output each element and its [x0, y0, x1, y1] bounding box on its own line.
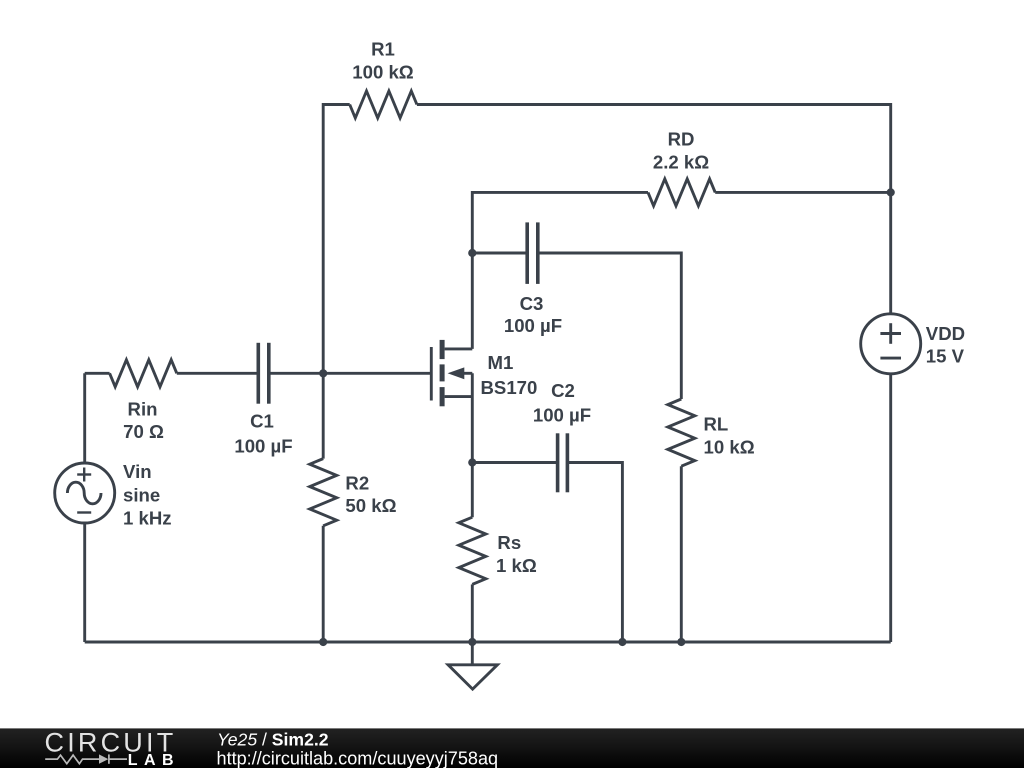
svg-text:Ye25 / Sim2.2: Ye25 / Sim2.2	[217, 730, 329, 750]
junction: source/C2 node	[468, 458, 476, 466]
channel bar bottom (source)	[440, 387, 445, 406]
wire: node A down to R2 top	[322, 373, 325, 458]
VDD minus sign	[880, 357, 901, 360]
wire: C2 right plate over and down to bottom rail	[567, 463, 622, 643]
svg-text:50 kΩ: 50 kΩ	[345, 495, 396, 516]
svg-text:R1: R1	[371, 39, 395, 60]
svg-text:1 kΩ: 1 kΩ	[496, 555, 537, 576]
wire: RD right to right rail	[715, 191, 891, 194]
svg-text:C1: C1	[250, 411, 274, 432]
junction: C2/bottom rail	[618, 638, 626, 646]
svg-text:Rs: Rs	[497, 532, 521, 553]
wire: source vertical from arrow down to Rs top	[471, 373, 474, 517]
resistor Rs	[459, 517, 486, 584]
source lead	[445, 395, 473, 398]
resistor Rin	[110, 360, 177, 387]
svg-text:70 Ω: 70 Ω	[123, 421, 164, 442]
wire: bottom rail	[85, 641, 891, 644]
junction: node A (C1/R1/R2/gate)	[319, 369, 327, 377]
Vin circle	[55, 463, 115, 523]
resistor RL	[668, 399, 695, 466]
junction: R2/bottom rail	[319, 638, 327, 646]
svg-text:Rin: Rin	[128, 399, 158, 420]
channel bar top (drain)	[440, 340, 445, 359]
wire: C1 right plate to node A	[269, 372, 323, 375]
svg-text:Vin: Vin	[123, 461, 152, 482]
svg-text:10 kΩ: 10 kΩ	[704, 436, 755, 457]
svg-text:R2: R2	[345, 473, 369, 494]
svg-text:100 µF: 100 µF	[234, 436, 292, 457]
svg-text:15 V: 15 V	[926, 346, 965, 367]
wire: R2 bottom to bottom rail	[322, 526, 325, 642]
svg-text:http://circuitlab.com/cuuyeyyj: http://circuitlab.com/cuuyeyyj758aq	[217, 749, 499, 768]
svg-text:BS170: BS170	[481, 377, 538, 398]
body arrow head	[448, 367, 465, 379]
svg-text:1 kHz: 1 kHz	[123, 507, 172, 528]
wire: R1 right to top-right corner	[417, 105, 891, 314]
Vin plus sign	[77, 473, 91, 475]
voltage source VDD	[861, 314, 921, 642]
voltage source Vin (sine)	[55, 373, 115, 642]
transistor M1 (BS170 NMOS)	[431, 340, 472, 406]
svg-text:VDD: VDD	[926, 323, 965, 344]
svg-text:100 kΩ: 100 kΩ	[352, 62, 414, 83]
wire: left rail down to Vin top	[83, 373, 86, 463]
wire: Vin bottom to bottom rail	[83, 523, 86, 642]
wire: drain node to C3 left plate	[472, 252, 527, 255]
wire: node A up to R1 left lead	[323, 105, 350, 374]
svg-text:LAB: LAB	[128, 752, 180, 768]
Vin sine wave	[67, 482, 101, 504]
junction: drain/C3 node	[468, 249, 476, 257]
VDD plus sign	[880, 332, 901, 335]
wire: input row left rail top	[85, 372, 110, 375]
resistor RD	[648, 179, 715, 206]
gate bar	[430, 347, 433, 401]
svg-text:sine: sine	[123, 485, 160, 506]
footer bar	[0, 728, 1024, 768]
drain lead	[445, 347, 473, 350]
resistor R1	[350, 91, 417, 118]
wire: node A to gate	[323, 372, 430, 375]
svg-text:RL: RL	[704, 414, 729, 435]
Vin minus sign	[77, 511, 91, 513]
channel bar middle (body)	[440, 364, 445, 381]
junction: Rs/ground node	[468, 638, 476, 646]
svg-text:C2: C2	[551, 380, 575, 401]
capacitor C2	[558, 433, 568, 492]
wire: VDD bottom down to bottom-right corner	[889, 374, 892, 642]
junction: RL/bottom rail	[677, 638, 685, 646]
junction: RD/right rail	[887, 188, 895, 196]
svg-text:M1: M1	[488, 352, 514, 373]
wire: Rs bottom to bottom rail	[471, 584, 474, 642]
wire: Rin right to C1 left plate	[177, 372, 258, 375]
svg-text:2.2 kΩ: 2.2 kΩ	[653, 152, 709, 173]
svg-text:100 µF: 100 µF	[533, 405, 591, 426]
svg-text:RD: RD	[668, 129, 695, 150]
capacitor C1	[258, 343, 269, 404]
wire: RL bottom to bottom rail	[680, 466, 683, 642]
wire: drain vertical up and over to RD left	[472, 192, 648, 349]
svg-text:C3: C3	[520, 293, 544, 314]
CircuitLab logo squiggle (resistor + diode)	[45, 754, 127, 763]
ground	[448, 642, 497, 689]
wire: C3 right plate over and down to RL top	[538, 253, 682, 399]
wire: source node to C2 left plate	[472, 461, 557, 464]
svg-text:100 µF: 100 µF	[504, 315, 562, 336]
VDD circle	[861, 314, 921, 374]
resistor R2	[310, 459, 337, 526]
body arrow lead	[460, 372, 472, 375]
capacitor C3	[527, 222, 538, 284]
